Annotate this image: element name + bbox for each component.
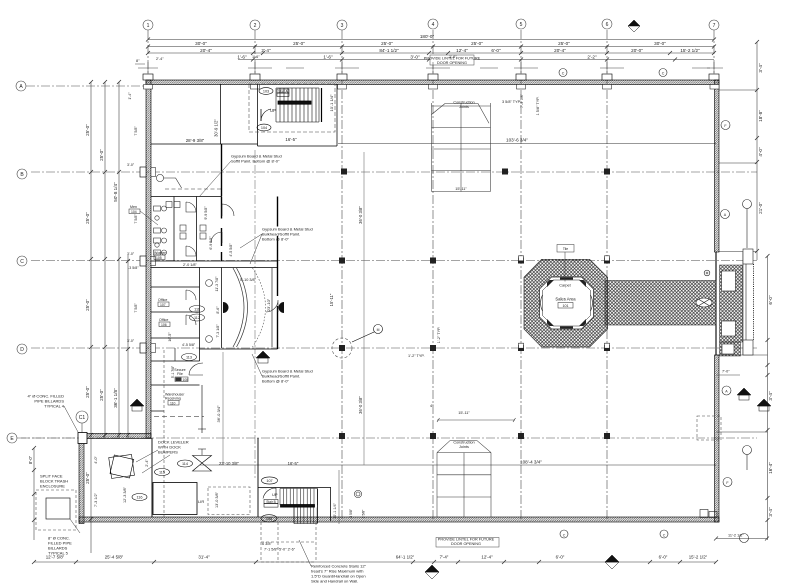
svg-text:20'-4": 20'-4" <box>554 48 566 53</box>
svg-text:7'-4": 7'-4" <box>440 555 449 560</box>
svg-text:3 5/8" TYP.: 3 5/8" TYP. <box>502 100 521 104</box>
svg-text:114: 114 <box>182 462 188 466</box>
office partitions <box>199 268 201 362</box>
svg-text:12'-4": 12'-4" <box>481 555 493 560</box>
door arcs offices <box>186 204 278 375</box>
grid column line 3 <box>341 30 343 519</box>
svg-text:2'-4": 2'-4" <box>145 459 149 467</box>
left dim chain x128 partial <box>127 255 129 438</box>
warehouse dashed wall x164 <box>163 350 165 517</box>
grid column line 7 <box>713 30 715 80</box>
right exterior wall upper <box>715 80 720 252</box>
provide lintel note top <box>424 55 481 65</box>
stair A south wall <box>258 145 338 147</box>
svg-text:9'-9 5/8": 9'-9 5/8" <box>204 206 208 220</box>
svg-text:112: 112 <box>194 316 200 320</box>
top wall pilasters <box>143 74 719 80</box>
svg-text:107: 107 <box>160 303 166 307</box>
grid bubble B left <box>17 169 27 179</box>
svg-text:1'-2" TYP.: 1'-2" TYP. <box>437 327 441 344</box>
svg-text:Tile: Tile <box>563 247 568 251</box>
provide lintel note bottom <box>436 538 499 548</box>
dock bumper bowtie <box>193 456 212 472</box>
svg-text:36'-0 3/8": 36'-0 3/8" <box>358 396 363 414</box>
svg-text:1'-6": 1'-6" <box>449 55 457 59</box>
svg-text:16'-5": 16'-5" <box>285 137 297 142</box>
svg-text:116: 116 <box>136 496 142 500</box>
stair B exterior stoop dashed <box>261 522 316 562</box>
svg-text:UP: UP <box>272 492 278 497</box>
stair A west wall <box>257 84 259 146</box>
svg-text:30'-9 1/2": 30'-9 1/2" <box>214 119 219 137</box>
stair A east wall <box>336 84 338 146</box>
svg-text:7 5/8": 7 5/8" <box>134 214 138 224</box>
right side circled letters <box>559 69 752 543</box>
dock leveler squares <box>109 454 135 478</box>
office block east wall x277 <box>277 197 279 350</box>
office block east wall x221 upper <box>221 144 223 261</box>
svg-text:8'-0": 8'-0" <box>28 455 33 464</box>
svg-text:1: 1 <box>147 23 150 29</box>
svg-text:7: 7 <box>713 23 716 29</box>
svg-text:16'-4": 16'-4" <box>768 462 773 474</box>
svg-text:25'-0": 25'-0" <box>558 41 570 46</box>
grid row line C <box>31 260 757 262</box>
svg-text:31'-4": 31'-4" <box>198 555 210 560</box>
octagon white col squares <box>519 256 610 348</box>
svg-text:LIR: LIR <box>198 499 204 504</box>
svg-text:23'-10": 23'-10" <box>266 298 271 311</box>
svg-text:4'-5 5/8": 4'-5 5/8" <box>182 343 196 347</box>
bottom dim chain y562 <box>34 561 716 563</box>
svg-text:3'-0": 3'-0" <box>410 54 420 59</box>
stair A door <box>261 109 271 121</box>
interior dim line 108'-4 3/4" <box>200 464 716 466</box>
svg-text:Joints: Joints <box>459 105 469 109</box>
svg-text:1'-6": 1'-6" <box>323 54 333 59</box>
svg-text:84'-1 1/2": 84'-1 1/2" <box>379 48 399 53</box>
svg-text:5: 5 <box>520 22 523 28</box>
top dim chain line 2 (bay dims) <box>148 46 714 48</box>
stair B landing bar <box>281 505 315 508</box>
svg-text:106: 106 <box>161 323 167 327</box>
office block south y349 <box>200 348 278 350</box>
grid bubble D left <box>17 344 27 354</box>
section markers diamonds <box>130 20 771 579</box>
grid column line 2 <box>254 30 256 80</box>
svg-text:15'-11": 15'-11" <box>455 187 467 191</box>
stair A landing bar <box>278 101 311 104</box>
grid bubble 3 <box>337 20 347 30</box>
svg-text:111: 111 <box>194 308 200 312</box>
svg-text:108: 108 <box>266 517 272 521</box>
svg-text:28'-9 3/8": 28'-9 3/8" <box>186 138 205 143</box>
svg-text:18'-8": 18'-8" <box>758 110 763 122</box>
room 100 partition horizontal y144 <box>151 143 258 145</box>
left dim chain x119 <box>118 82 120 438</box>
svg-text:1 5/8" TYP.: 1 5/8" TYP. <box>536 97 540 116</box>
svg-text:7 5/8": 7 5/8" <box>134 303 138 313</box>
svg-text:104: 104 <box>131 210 137 214</box>
men room tag <box>129 205 158 225</box>
svg-text:2'-4": 2'-4" <box>261 48 271 53</box>
octagon corner fixtures <box>547 278 586 329</box>
construction joint grid bottom <box>437 441 491 517</box>
svg-text:Construction: Construction <box>453 101 474 105</box>
grid bubble C1 <box>76 411 88 433</box>
svg-text:1'-4": 1'-4" <box>128 92 132 100</box>
office 106 tag <box>159 318 170 327</box>
svg-text:20'-4": 20'-4" <box>200 48 212 53</box>
svg-text:Joints: Joints <box>459 445 469 449</box>
svg-text:7'-3 1/8": 7'-3 1/8" <box>216 324 220 338</box>
column callout M <box>352 325 383 343</box>
pilaster mini dim ticks top <box>135 62 723 74</box>
svg-text:108: 108 <box>183 378 189 382</box>
svg-text:7'-3 1/2": 7'-3 1/2" <box>94 492 98 507</box>
svg-text:4'-0": 4'-0" <box>94 456 98 464</box>
toilet block north partition y189 dashed <box>165 188 222 190</box>
svg-text:103: 103 <box>263 90 269 94</box>
svg-text:C: C <box>662 72 665 76</box>
svg-text:23'-10 3/8": 23'-10 3/8" <box>219 461 239 466</box>
svg-text:1'-2" TYP.: 1'-2" TYP. <box>408 354 425 358</box>
svg-text:Office: Office <box>159 318 168 322</box>
svg-text:107: 107 <box>266 479 272 483</box>
right wall storefront segment <box>715 252 717 355</box>
toilet fixtures <box>154 202 207 257</box>
svg-text:12'-4": 12'-4" <box>456 48 468 53</box>
svg-text:10'-1 1/4": 10'-1 1/4" <box>329 94 334 111</box>
svg-text:ENCLOSURE: ENCLOSURE <box>40 484 65 489</box>
svg-text:TYPICAL 5: TYPICAL 5 <box>48 551 69 556</box>
svg-text:25'-0": 25'-0" <box>99 389 104 401</box>
svg-text:Bottom @ 8'-0": Bottom @ 8'-0" <box>262 237 290 242</box>
svg-text:4: 4 <box>432 22 435 28</box>
svg-text:101: 101 <box>563 304 569 308</box>
svg-text:D: D <box>20 347 24 353</box>
women room tag <box>154 251 166 260</box>
storage room <box>153 483 197 515</box>
grid bubble 4 <box>428 19 438 29</box>
grid row line E <box>21 437 757 439</box>
hexagon marker on hatch top <box>704 270 710 276</box>
svg-text:15'-2 1/2": 15'-2 1/2" <box>689 555 708 560</box>
vestibule hatch right of wall <box>720 265 743 342</box>
trash enclosure dashed <box>36 490 76 530</box>
svg-text:C1: C1 <box>79 415 86 421</box>
svg-text:Receiving: Receiving <box>165 397 181 401</box>
svg-text:C: C <box>20 259 24 265</box>
svg-text:16'-5": 16'-5" <box>288 461 299 466</box>
octagon hatched ring <box>524 259 608 347</box>
svg-text:3'-0": 3'-0" <box>127 252 135 256</box>
svg-text:5'-1 7/8": 5'-1 7/8" <box>171 365 175 378</box>
stair B tags <box>262 477 278 484</box>
right exterior wall lower <box>715 355 720 522</box>
grid bubble 7 <box>709 20 719 30</box>
interior vertical dim x364 <box>363 152 365 465</box>
svg-text:Women: Women <box>154 251 166 255</box>
construction joint grid top <box>432 103 491 192</box>
svg-text:7 5/8": 7 5/8" <box>134 126 138 136</box>
stair A treads <box>276 88 319 122</box>
svg-text:6'-0": 6'-0" <box>491 48 501 53</box>
svg-text:Soffit Paint. Bottom @ 8'-0": Soffit Paint. Bottom @ 8'-0" <box>231 159 280 164</box>
grid column line 4 <box>432 30 434 519</box>
svg-text:115: 115 <box>159 471 165 475</box>
corridor hatch band <box>605 281 716 326</box>
e bubble line <box>17 437 79 439</box>
left dim chain x91 <box>90 82 92 553</box>
svg-text:25'-0": 25'-0" <box>293 41 305 46</box>
secure file tag <box>171 365 188 382</box>
svg-text:Stair B: Stair B <box>266 500 276 504</box>
toilet partition y196 <box>151 196 222 198</box>
callout 114 <box>178 460 193 467</box>
corridor north line y261 <box>151 260 278 262</box>
svg-text:3'-4": 3'-4" <box>758 63 763 73</box>
grid bubble 6 <box>602 19 612 29</box>
svg-text:16'-5": 16'-5" <box>168 332 172 342</box>
top exterior wall <box>146 80 719 85</box>
grid bubble E left <box>7 433 17 443</box>
svg-text:1'-6": 1'-6" <box>237 54 247 59</box>
left exterior wall <box>146 80 151 438</box>
stair B lower flight treads <box>294 508 317 524</box>
svg-text:25'-0": 25'-0" <box>99 149 104 161</box>
left wall pilasters <box>140 167 146 177</box>
svg-text:Men: Men <box>130 205 137 209</box>
svg-text:5'-10 3/8": 5'-10 3/8" <box>240 278 257 282</box>
octagon side arcs <box>541 295 593 311</box>
svg-text:104: 104 <box>261 126 267 130</box>
corridor south line y267.5 <box>151 267 278 269</box>
svg-text:25'-0": 25'-0" <box>85 124 90 136</box>
roof access dashed right <box>697 416 721 440</box>
svg-text:103'-6 3/4": 103'-6 3/4" <box>506 138 528 143</box>
grid column line 2 interior <box>254 150 256 480</box>
left wall tiny dims <box>128 92 139 313</box>
svg-text:50'-8 1/4": 50'-8 1/4" <box>113 182 118 202</box>
interior dim line 103'-6 3/4" <box>338 142 716 144</box>
svg-text:DOOR OPENING: DOOR OPENING <box>451 542 481 546</box>
svg-text:11'-3 7/8": 11'-3 7/8" <box>215 276 219 292</box>
svg-text:6'-0": 6'-0" <box>768 295 773 305</box>
svg-text:C: C <box>663 534 666 538</box>
svg-text:3: 3 <box>341 23 344 29</box>
svg-text:21'-0": 21'-0" <box>758 202 763 214</box>
grid row line D <box>31 347 757 349</box>
stair A tag <box>259 88 273 95</box>
secure file room partition <box>151 384 200 386</box>
interior pilaster bases top wall <box>144 85 720 90</box>
top dim chain line 3 <box>148 52 714 54</box>
svg-text:-3 5/8": -3 5/8" <box>128 266 139 270</box>
svg-text:BUMPERS: BUMPERS <box>158 450 178 455</box>
svg-text:25'-0": 25'-0" <box>85 212 90 224</box>
column E pilaster <box>78 433 87 444</box>
svg-text:25'-0": 25'-0" <box>85 386 90 398</box>
svg-text:113: 113 <box>186 356 192 360</box>
interior pilaster bases left wall <box>151 168 156 353</box>
svg-text:2: 2 <box>254 23 257 29</box>
grid column line 5 <box>520 30 522 519</box>
svg-text:6 3/8": 6 3/8" <box>262 542 272 546</box>
bottom-left vertical dim x34 <box>33 448 35 540</box>
svg-text:15'-11": 15'-11" <box>329 293 334 306</box>
right dim chain lower x767 <box>767 256 769 540</box>
corridor bowtie symbol <box>696 298 712 307</box>
dashed circle around column D3 <box>332 338 352 358</box>
grid bubble A left <box>16 81 26 91</box>
svg-text:M: M <box>377 328 380 332</box>
room 100 partition vertical x220 <box>220 84 222 144</box>
stair B upper flight treads <box>280 489 317 506</box>
callout 115 <box>155 469 170 476</box>
svg-text:Stair A: Stair A <box>278 89 288 93</box>
grid column line 6 <box>606 30 608 519</box>
inner octagon white <box>540 277 594 329</box>
bottom exterior wall <box>79 517 719 522</box>
top dim chain line 4 <box>238 59 714 61</box>
svg-text:25'-4 5/8": 25'-4 5/8" <box>105 555 124 560</box>
svg-text:30'-0": 30'-0" <box>654 41 666 46</box>
svg-text:180'-0": 180'-0" <box>420 34 435 39</box>
svg-text:4'-0": 4'-0" <box>758 147 763 157</box>
svg-text:6'-0": 6'-0" <box>659 555 668 560</box>
svg-text:13'-0 3/8": 13'-0 3/8" <box>215 491 219 508</box>
svg-text:Office: Office <box>158 298 167 302</box>
left dim chain x105 <box>104 82 106 438</box>
callouts 111 112 113 <box>182 306 205 361</box>
svg-text:12'-3 3/8": 12'-3 3/8" <box>123 486 127 503</box>
svg-text:DOOR OPENING: DOOR OPENING <box>437 61 467 65</box>
right wall row stubs <box>719 90 757 252</box>
grid row line B <box>31 171 757 173</box>
svg-text:C: C <box>563 534 566 538</box>
stair A landing wall <box>321 88 323 122</box>
svg-text:7'-1 5/8" 5'-0" 2'-6": 7'-1 5/8" 5'-0" 2'-6" <box>264 548 296 552</box>
grid bubble C left <box>17 256 27 266</box>
svg-text:Side and Handrail on Wall.: Side and Handrail on Wall. <box>311 579 358 584</box>
svg-text:6'-0": 6'-0" <box>556 555 565 560</box>
LIR room dashed <box>208 487 250 515</box>
grid bubble 5 <box>516 19 526 29</box>
svg-text:20'-0": 20'-0" <box>631 48 643 53</box>
svg-text:2'-0 1/8": 2'-0 1/8" <box>183 263 198 267</box>
svg-text:3'-0": 3'-0" <box>127 163 135 167</box>
grid bubble 2 <box>250 20 260 30</box>
svg-text:Sales Area: Sales Area <box>555 297 576 302</box>
dock area dims <box>94 456 149 507</box>
svg-text:36'-0 3/4": 36'-0 3/4" <box>216 405 221 422</box>
toilet partition x197 <box>196 197 198 262</box>
left step wall at row E <box>79 434 151 439</box>
svg-text:2'-2": 2'-2" <box>587 54 597 59</box>
svg-text:3'-4": 3'-4" <box>768 391 773 401</box>
svg-text:3 5/8": 3 5/8" <box>362 509 366 519</box>
storefront mullions right <box>743 249 754 355</box>
svg-text:15'-2 1/2": 15'-2 1/2" <box>680 48 700 53</box>
column markers <box>339 169 610 440</box>
svg-text:105: 105 <box>156 256 162 260</box>
svg-text:TYPICAL 4: TYPICAL 4 <box>44 404 65 409</box>
top dim chain line 1 (180'-0") <box>148 39 714 41</box>
interior wall x152 below row E <box>151 438 153 517</box>
svg-text:4'-5 5/8": 4'-5 5/8" <box>229 243 233 257</box>
svg-text:11'-2 1/2": 11'-2 1/2" <box>728 534 744 538</box>
callout 116 <box>132 494 147 501</box>
svg-text:2'-4": 2'-4" <box>156 57 164 61</box>
svg-text:36'-1 1/8": 36'-1 1/8" <box>113 388 118 408</box>
soffit arcs <box>233 268 244 347</box>
svg-text:-3 5/8": -3 5/8" <box>349 508 353 519</box>
svg-text:25'-0": 25'-0" <box>85 472 90 484</box>
svg-text:Carpet: Carpet <box>559 284 571 288</box>
bottom right wall stubs <box>700 510 717 518</box>
svg-text:Bottom @ 8'-0": Bottom @ 8'-0" <box>262 379 290 384</box>
grid column line 1 <box>147 30 149 80</box>
stair B door arc <box>263 488 276 499</box>
svg-text:1'-6": 1'-6" <box>252 55 260 59</box>
grid bubble 1 <box>143 20 153 30</box>
svg-text:25'-0": 25'-0" <box>85 299 90 311</box>
svg-text:7'-9 7/8": 7'-9 7/8" <box>520 93 524 108</box>
vestibule exit bottom hatch <box>720 342 741 356</box>
lower-left exterior wall <box>79 434 84 524</box>
svg-text:64'-1 1/2": 64'-1 1/2" <box>396 555 415 560</box>
svg-text:36'-0 3/8": 36'-0 3/8" <box>358 206 363 224</box>
interior vertical dim x223 <box>222 352 224 465</box>
svg-text:6: 6 <box>606 22 609 28</box>
right dim chain upper x757 <box>756 42 758 260</box>
svg-text:Construction: Construction <box>453 441 474 445</box>
svg-text:25'-0": 25'-0" <box>381 41 393 46</box>
svg-text:15'-11": 15'-11" <box>458 411 470 415</box>
office 107 tag <box>158 298 169 307</box>
svg-text:File: File <box>177 372 183 376</box>
svg-text:C: C <box>562 72 565 76</box>
svg-text:30'-0": 30'-0" <box>195 41 207 46</box>
svg-text:10'-1 1/4": 10'-1 1/4" <box>333 502 337 519</box>
svg-text:25'-0": 25'-0" <box>471 41 483 46</box>
warehouse tag <box>165 393 184 406</box>
svg-text:8'-6": 8'-6" <box>216 306 220 314</box>
svg-text:3'-4": 3'-4" <box>768 507 773 517</box>
toilet partition x174 <box>173 197 175 262</box>
svg-text:3'-0": 3'-0" <box>127 339 135 343</box>
svg-text:108'-4 3/4": 108'-4 3/4" <box>520 459 542 464</box>
stair A dashed enclosure <box>249 84 335 132</box>
stair B west wall x258 <box>257 438 259 517</box>
svg-text:110: 110 <box>170 402 176 406</box>
svg-text:7'-0": 7'-0" <box>722 370 730 374</box>
small office dims <box>168 206 233 347</box>
stair B room walls <box>258 487 331 489</box>
